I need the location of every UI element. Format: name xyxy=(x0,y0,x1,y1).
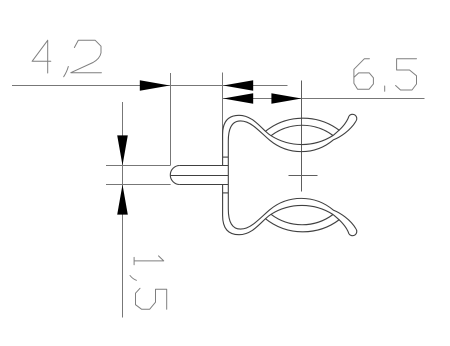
arrowhead left at x=222.7 on 6.5 dimension xyxy=(223,93,253,104)
centerline through clip xyxy=(301,81,303,192)
arrowhead down at y=165.9 on 1,5 dimension xyxy=(117,135,128,165)
digit 4 xyxy=(32,40,51,73)
extension line at pin tip x=170.5 xyxy=(170,73,172,166)
pin seam line xyxy=(171,175,229,177)
arrowhead right at x=301.2 on 6.5 dimension xyxy=(271,93,301,104)
digit 5 xyxy=(136,288,167,309)
dome outer arc top wing xyxy=(265,118,339,131)
fuse clip body xyxy=(170,114,357,235)
wing tip cap xyxy=(349,114,357,121)
pin bottom edge xyxy=(180,184,229,186)
period xyxy=(384,86,386,91)
wall tick xyxy=(223,156,229,158)
text 1,5 rotated xyxy=(130,256,167,309)
vertical dimension line 1,5 xyxy=(122,102,124,318)
wall inner segment across pin xyxy=(227,166,229,185)
text 6.5 xyxy=(354,59,417,91)
arrowhead left at x=222.7 on 4,2 dimension xyxy=(223,80,253,91)
digit 6 xyxy=(354,59,374,90)
comma xyxy=(64,67,69,77)
pin rounded cap xyxy=(170,166,180,185)
extension line pin bottom edge xyxy=(106,184,171,186)
digit 1 xyxy=(134,256,164,265)
dimension line 4,2 xyxy=(12,85,288,87)
extension line at clip left wall x=222.7 xyxy=(222,73,224,141)
digit 5 xyxy=(396,59,417,90)
dome inner arc top wing xyxy=(271,125,333,135)
text 4,2 xyxy=(32,40,101,76)
arrowhead up at y=184.3 on 1,5 dimension xyxy=(117,185,128,215)
top wing xyxy=(223,114,357,165)
dimension line 6.5 xyxy=(223,98,425,100)
wave outer line top wing xyxy=(223,115,349,165)
extension line pin top edge xyxy=(106,165,170,167)
bottom wing (mirror of top about y=175) xyxy=(223,185,357,236)
arrowhead right at x=170 on 4,2 dimension xyxy=(140,80,170,91)
wave inner line top wing xyxy=(228,121,356,166)
comma xyxy=(130,276,136,281)
digit 2 xyxy=(71,40,102,72)
center cross horizontal bar xyxy=(289,175,318,177)
pin top edge xyxy=(180,165,229,167)
